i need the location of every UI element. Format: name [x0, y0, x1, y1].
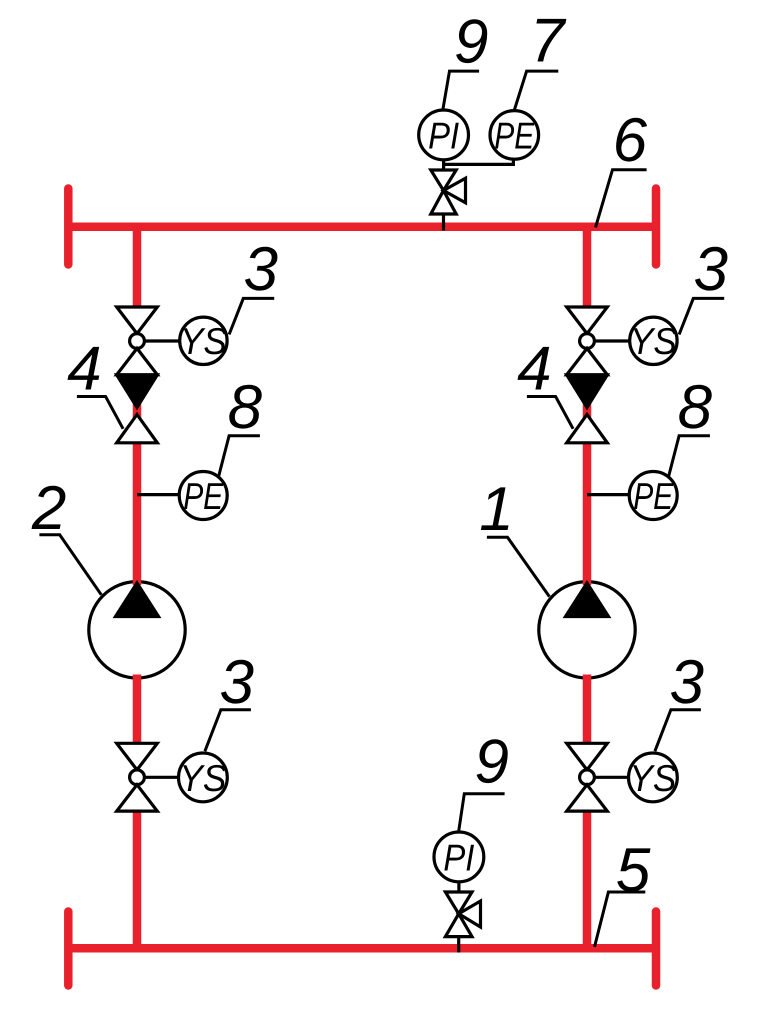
pipe: left branch lower segment: [133, 808, 142, 948]
svg-text:YS: YS: [179, 757, 226, 799]
svg-text:3: 3: [220, 648, 254, 717]
pump 2 body circle (left): [89, 582, 185, 678]
instrument YS (right top): [630, 317, 677, 364]
svg-text:8: 8: [678, 373, 713, 442]
pipe: bottom header left end cap: [64, 912, 73, 986]
svg-text:3: 3: [694, 235, 728, 304]
leader for label 4 (right): [527, 397, 573, 429]
leader for label 9 (top): [443, 71, 479, 110]
leader for label 3 (left top): [229, 298, 274, 334]
instrument PI (top, item 9): [419, 110, 469, 160]
valve (left top, item 3): [117, 307, 158, 375]
pipe: right branch lower segment: [583, 808, 592, 948]
valve (right bottom, item 3): [567, 743, 608, 811]
pipe: right branch upper segment: [583, 227, 592, 309]
pipe: bottom header: [68, 944, 656, 953]
svg-text:PI: PI: [428, 114, 459, 156]
svg-text:4: 4: [67, 335, 101, 404]
three-way drain valve (top center): [431, 170, 466, 214]
pipe: right branch middle segment: [583, 441, 592, 585]
svg-text:1: 1: [479, 475, 513, 544]
svg-text:9: 9: [475, 727, 509, 796]
pump 1 body circle (right): [539, 582, 635, 678]
svg-text:PE: PE: [633, 475, 674, 517]
svg-text:5: 5: [616, 836, 651, 905]
pipe: left branch upper segment: [133, 227, 142, 309]
leader for label 8 (right): [669, 436, 710, 477]
pipe: left branch check valve gap segment: [133, 400, 142, 418]
signal line valve to YS (left top): [145, 339, 180, 342]
svg-text:YS: YS: [630, 320, 677, 362]
svg-text:PE: PE: [494, 114, 535, 156]
leader for label 2: [39, 535, 101, 595]
svg-text:6: 6: [613, 106, 648, 175]
instrument PI (bottom, item 9): [434, 832, 484, 882]
leader for label 1: [487, 537, 550, 596]
leader for label 8 (left): [219, 436, 260, 477]
instrument PE (right, item 8): [629, 472, 677, 520]
valve (right top, item 3): [567, 307, 608, 375]
instrument PE (left, item 8): [179, 472, 227, 520]
leader for label 9 (bottom): [459, 794, 505, 832]
leader for label 3 (right bottom): [655, 710, 701, 752]
drain valve stem to bottom header: [457, 937, 460, 953]
pipe: top header left end cap: [64, 189, 73, 265]
svg-text:8: 8: [228, 373, 263, 442]
check valve 4 (left): [117, 375, 158, 443]
signal line valve to YS (right top): [595, 339, 630, 342]
pipe: bottom header right end cap: [652, 912, 661, 986]
impulse stem PE (top center): [512, 159, 515, 166]
instrument PE (top, item 7): [490, 111, 539, 160]
instrument YS (left top): [180, 317, 227, 364]
pipe: right branch check valve gap segment: [583, 400, 592, 418]
instrument tap line PE (left): [137, 493, 179, 496]
three-way drain valve (bottom center): [445, 892, 480, 937]
check valve 4 (right): [567, 375, 608, 443]
instrument tap line PE (right): [587, 493, 629, 496]
signal line valve to YS (left bottom): [145, 776, 178, 779]
svg-text:YS: YS: [629, 757, 676, 799]
leader for label 4 (left): [77, 397, 123, 429]
leader for label 3 (right top): [679, 298, 724, 334]
valve (left bottom, item 3): [117, 743, 158, 811]
svg-text:3: 3: [670, 648, 704, 717]
instrument YS (left bottom): [179, 753, 228, 802]
svg-text:7: 7: [530, 7, 567, 76]
svg-text:4: 4: [517, 335, 551, 404]
leader for label 5: [595, 892, 646, 947]
svg-text:2: 2: [31, 474, 66, 543]
svg-text:PI: PI: [443, 836, 474, 878]
pipe: left branch middle segment: [133, 441, 142, 585]
impulse line PI to valve (bottom center): [457, 882, 460, 893]
svg-text:3: 3: [244, 235, 278, 304]
leader for label 3 (left bottom): [205, 710, 251, 752]
instrument YS (right bottom): [629, 753, 678, 802]
pump 1 impeller triangle: [566, 583, 609, 617]
pump 2 impeller triangle: [116, 583, 159, 617]
svg-text:PE: PE: [183, 475, 224, 517]
pipe: left branch pump outlet segment: [133, 675, 142, 747]
drain valve stem to top header: [442, 214, 445, 231]
leader for label 7: [514, 71, 558, 110]
pipe: top header: [68, 223, 656, 232]
svg-text:YS: YS: [180, 320, 227, 362]
pipe: top header right end cap: [652, 189, 661, 265]
leader for label 6: [596, 170, 647, 228]
pipe: right branch pump outlet segment: [583, 675, 592, 747]
svg-text:9: 9: [454, 8, 488, 77]
signal line valve to YS (right bottom): [595, 776, 628, 779]
impulse link line PI-PE (top center): [444, 163, 514, 166]
impulse line PI to valve (top center): [442, 160, 445, 171]
